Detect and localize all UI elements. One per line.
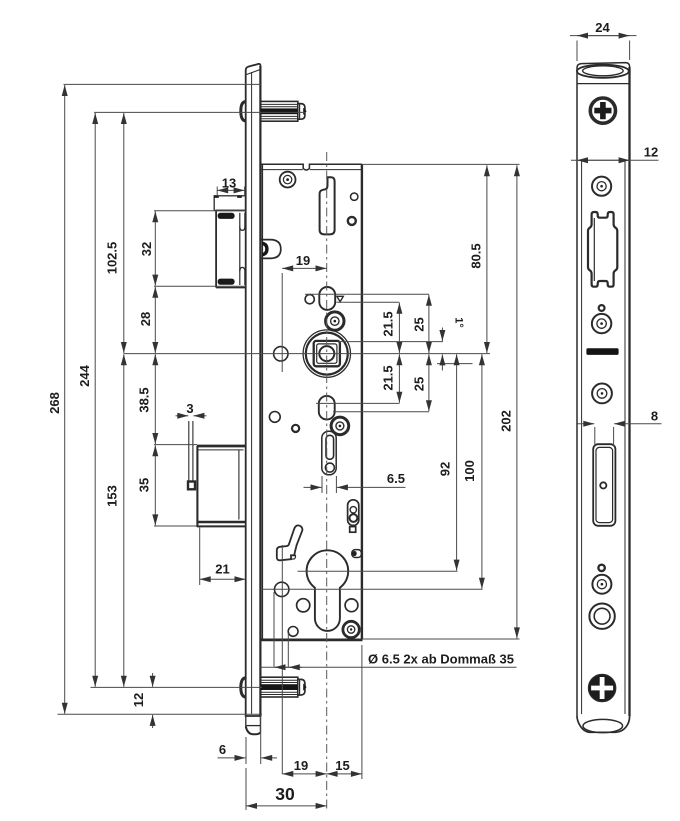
aux deadbolt box lower <box>197 446 246 527</box>
extension oval-center line <box>337 301 400 303</box>
screw hole left of cylinder lobe <box>297 599 310 612</box>
small pin hole <box>599 305 605 311</box>
extension stub 1deg <box>437 363 473 365</box>
dim 21.5 lower <box>380 354 399 403</box>
extension 32/28 <box>154 285 246 287</box>
svg-text:12: 12 <box>131 693 146 707</box>
svg-text:244: 244 <box>77 364 92 386</box>
extension lower-25 line <box>333 411 429 413</box>
dim 21.5 upper <box>380 303 399 353</box>
dim 6.5 (outside arrows) <box>304 471 406 493</box>
svg-text:1°: 1° <box>453 317 465 328</box>
centerline follower horizontal <box>124 353 491 355</box>
svg-text:30: 30 <box>275 784 295 804</box>
dim 35 <box>136 445 155 525</box>
svg-text:25: 25 <box>411 377 426 391</box>
dim 32 <box>139 211 155 285</box>
aux deadbolt box upper <box>216 210 246 287</box>
dim 153 <box>104 354 123 687</box>
svg-text:92: 92 <box>437 462 452 476</box>
screw hole 5 <box>592 575 611 594</box>
aux latch pin (D bump on faceplate) <box>262 240 281 259</box>
bottom cross screw <box>589 674 616 701</box>
svg-text:24: 24 <box>595 20 610 35</box>
svg-text:19: 19 <box>294 758 308 773</box>
svg-text:268: 268 <box>47 392 62 414</box>
extension 35 bottom <box>154 525 197 527</box>
dim 25 lower <box>411 354 428 411</box>
latch bolt top <box>261 101 307 121</box>
extension oval-top line <box>305 293 429 295</box>
circle left of cylinder (6.5 hole) <box>275 582 289 596</box>
centerline vertical (dash-dot) <box>326 152 328 812</box>
latch head bump bottom <box>241 678 246 697</box>
extension cylinder-center line <box>298 570 458 572</box>
svg-text:6: 6 <box>219 742 226 757</box>
svg-text:35: 35 <box>136 478 151 492</box>
latch bolt bottom <box>261 677 307 697</box>
svg-text:25: 25 <box>411 317 426 331</box>
hole extension line right <box>287 633 289 667</box>
svg-text:Ø 6.5 2x ab Dommaß 35: Ø 6.5 2x ab Dommaß 35 <box>368 652 514 667</box>
svg-text:6.5: 6.5 <box>387 471 405 486</box>
dim 12 bottom-left (outside arrows) <box>131 673 153 728</box>
extension case-right bottom <box>361 645 363 779</box>
lower slot (8 wide) <box>593 444 615 526</box>
faceplate (front strip, main view) <box>246 64 261 734</box>
note leader with arrows <box>261 652 517 668</box>
extension lower-oval line <box>316 402 400 404</box>
bottom end cap dish <box>583 719 623 732</box>
keyhole slot upper <box>320 177 335 234</box>
extension 100 line <box>262 588 483 590</box>
dim 80.5 <box>468 165 486 353</box>
hook lever <box>277 525 303 560</box>
extension case-top right <box>362 163 520 165</box>
svg-text:19: 19 <box>296 253 310 268</box>
vertical slot under follower <box>322 431 336 475</box>
svg-text:153: 153 <box>104 485 119 507</box>
screw hole 3 <box>592 314 611 333</box>
svg-text:21.5: 21.5 <box>380 365 395 390</box>
ring screw above follower <box>326 312 344 330</box>
circle left of follower <box>274 347 288 361</box>
dim 1 degree (outside arrows) <box>442 317 464 370</box>
svg-text:202: 202 <box>498 410 513 432</box>
small circle lower-left <box>269 412 280 423</box>
aux bolt head (13 wide) <box>214 195 245 210</box>
small clip at case edge <box>352 550 362 558</box>
dim 8 (right view, outside arrows) <box>578 409 662 447</box>
svg-text:80.5: 80.5 <box>468 243 483 268</box>
dim 19 bottom <box>282 758 326 774</box>
svg-text:21.5: 21.5 <box>380 311 395 336</box>
dim 25 upper <box>411 295 428 353</box>
screw hole right of cylinder lobe <box>345 599 358 612</box>
triangle mark right of oval <box>337 296 343 301</box>
dog-bone latch cutout <box>588 212 617 287</box>
dim 100 <box>462 354 482 589</box>
dim 21 lower-left <box>200 528 246 586</box>
lock case body <box>260 164 363 640</box>
oval hole below follower <box>319 396 335 420</box>
svg-text:28: 28 <box>138 312 153 326</box>
svg-text:12: 12 <box>644 145 658 160</box>
small slotted part right of centerline <box>348 500 359 532</box>
dim 12 (right view) <box>571 145 659 161</box>
inner channel lines <box>582 160 625 714</box>
dim 202 <box>498 165 516 638</box>
dim 13 <box>217 176 244 197</box>
svg-text:13: 13 <box>222 176 236 191</box>
small hole bottom-left (6.5 hole) <box>288 627 298 637</box>
faceplate edge view outline <box>577 63 630 733</box>
small hole right of slot <box>351 193 358 200</box>
small dark dot lower-left <box>292 425 299 432</box>
oval hole above follower <box>319 287 335 310</box>
svg-text:3: 3 <box>186 401 193 416</box>
extension line bottom 268 <box>58 713 263 715</box>
dim 102.5 <box>104 113 123 353</box>
extension line top 268 <box>64 83 261 85</box>
top end cap dome <box>577 65 630 84</box>
dim 6 bottom (outside arrows) <box>218 716 278 764</box>
euro profile cylinder hole <box>307 550 349 631</box>
small pin hole lower <box>598 565 604 571</box>
dim 92 <box>437 354 456 570</box>
dim 24 (right view) <box>570 20 637 61</box>
dim 268 <box>47 85 65 714</box>
dim 19 top (follower to hole) <box>282 253 326 372</box>
screw top-left in case <box>280 172 296 188</box>
dim 244 <box>77 113 95 687</box>
svg-text:15: 15 <box>335 758 349 773</box>
3mm slot lines <box>188 421 195 489</box>
extension 38.5/35 <box>154 444 197 446</box>
dim 30 bottom <box>246 768 327 810</box>
small dark ring hole <box>348 217 356 225</box>
svg-text:38.5: 38.5 <box>136 387 151 412</box>
follower (square spindle hub) <box>303 330 350 377</box>
svg-text:100: 100 <box>462 460 477 482</box>
latch head bump top (left of faceplate) <box>241 102 246 121</box>
follower level black bar <box>586 348 618 355</box>
large double hole <box>589 604 614 629</box>
svg-text:8: 8 <box>651 409 658 424</box>
svg-text:32: 32 <box>139 242 154 256</box>
small circle left of oval <box>305 295 314 304</box>
dim 28 <box>138 287 155 353</box>
centerline latch bottom <box>91 686 263 688</box>
screw hole 4 <box>592 384 612 404</box>
extension case-bottom right <box>363 638 520 640</box>
dim 38.5 <box>136 354 155 444</box>
svg-text:102.5: 102.5 <box>104 242 119 275</box>
extension 32 top <box>154 210 246 212</box>
hole extension line left <box>273 592 275 667</box>
extension follower-top line <box>338 341 443 343</box>
ring screw below follower <box>331 417 349 435</box>
ring screw bottom-right <box>343 621 359 637</box>
svg-text:21: 21 <box>215 562 229 577</box>
top cross screw <box>590 98 615 123</box>
dim 3 (outside arrows) <box>176 401 207 416</box>
centerline latch top <box>94 111 306 113</box>
hole extension line mid <box>281 545 283 774</box>
dim 15 bottom <box>327 758 362 774</box>
screw hole 2 <box>592 177 611 196</box>
